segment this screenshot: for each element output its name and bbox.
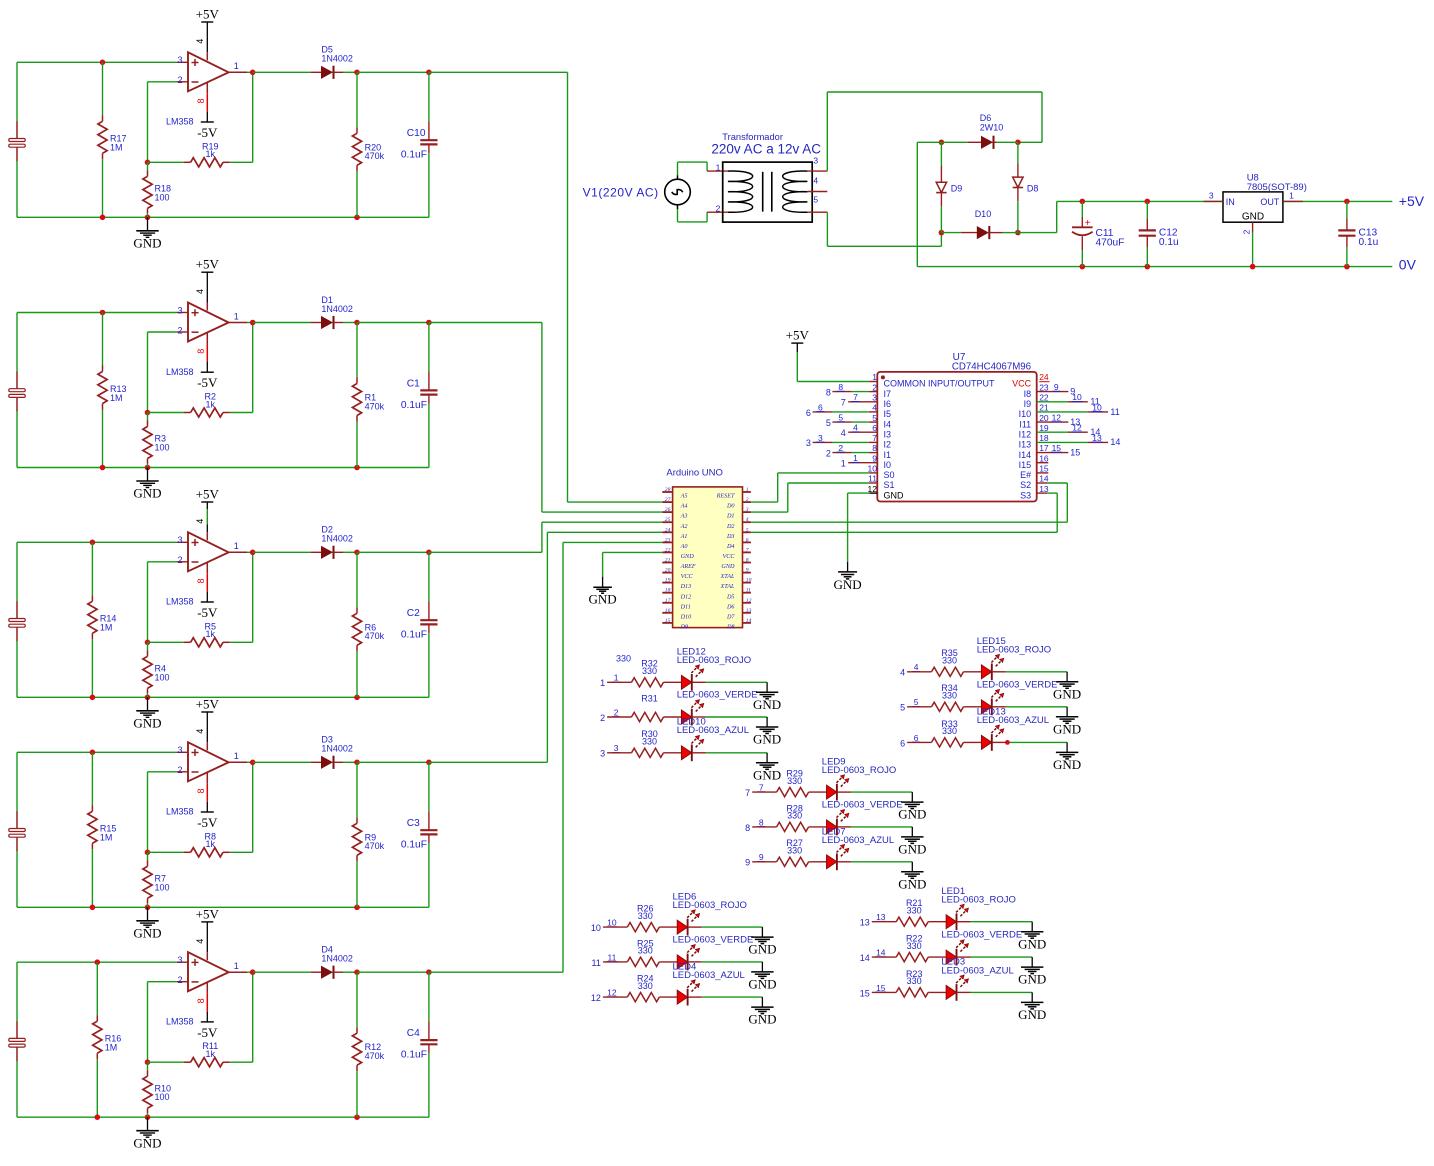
svg-text:100: 100 — [155, 882, 170, 892]
svg-text:470k: 470k — [365, 401, 385, 411]
svg-text:GND: GND — [721, 563, 735, 570]
svg-text:9: 9 — [872, 453, 877, 463]
svg-text:14: 14 — [746, 618, 752, 624]
svg-text:0V: 0V — [1399, 257, 1417, 273]
svg-text:3: 3 — [600, 749, 605, 759]
svg-text:XTAL: XTAL — [720, 583, 736, 590]
svg-text:8: 8 — [838, 382, 843, 392]
svg-text:330: 330 — [787, 776, 802, 786]
svg-text:I7: I7 — [884, 389, 892, 399]
svg-text:18: 18 — [665, 588, 671, 594]
svg-text:4: 4 — [195, 519, 205, 524]
svg-text:D8: D8 — [1027, 183, 1039, 193]
svg-text:10: 10 — [607, 918, 617, 928]
svg-text:GND: GND — [133, 235, 161, 250]
svg-text:1: 1 — [234, 961, 239, 971]
svg-text:330: 330 — [942, 726, 957, 736]
svg-text:4: 4 — [195, 729, 205, 734]
svg-text:C1: C1 — [407, 378, 420, 389]
svg-text:1k: 1k — [206, 149, 216, 159]
svg-text:14: 14 — [1039, 474, 1049, 484]
svg-text:0.1uF: 0.1uF — [401, 840, 427, 851]
svg-text:100: 100 — [155, 1092, 170, 1102]
svg-text:3: 3 — [1209, 191, 1214, 201]
svg-text:7: 7 — [841, 398, 846, 408]
svg-text:4: 4 — [746, 517, 749, 523]
svg-text:3: 3 — [177, 305, 182, 315]
svg-text:8: 8 — [759, 817, 764, 827]
svg-text:28: 28 — [665, 487, 671, 493]
svg-text:14: 14 — [860, 953, 870, 963]
svg-text:18: 18 — [1039, 433, 1049, 443]
svg-text:0.1uF: 0.1uF — [401, 630, 427, 641]
svg-text:LED-0603_ROJO: LED-0603_ROJO — [941, 895, 1015, 906]
svg-text:470k: 470k — [365, 631, 385, 641]
svg-text:-5V: -5V — [197, 125, 218, 140]
svg-text:XTAL: XTAL — [720, 573, 736, 580]
svg-text:5: 5 — [872, 413, 877, 423]
svg-text:LM358: LM358 — [166, 597, 194, 607]
svg-text:9: 9 — [745, 858, 750, 868]
svg-text:7: 7 — [872, 433, 877, 443]
svg-text:LED-0603_ROJO: LED-0603_ROJO — [673, 900, 747, 911]
svg-text:I14: I14 — [1019, 450, 1032, 460]
svg-text:COMMON INPUT/OUTPUT: COMMON INPUT/OUTPUT — [884, 379, 995, 389]
svg-text:3: 3 — [177, 745, 182, 755]
svg-text:I6: I6 — [884, 399, 892, 409]
svg-text:1N4002: 1N4002 — [321, 744, 353, 754]
svg-text:21: 21 — [665, 558, 671, 564]
svg-text:VCC: VCC — [722, 553, 735, 560]
svg-text:1: 1 — [853, 453, 858, 463]
svg-text:17: 17 — [665, 598, 671, 604]
svg-text:0.1uF: 0.1uF — [401, 150, 427, 161]
svg-text:1k: 1k — [206, 399, 216, 409]
svg-text:LED-0603_AZUL: LED-0603_AZUL — [673, 970, 745, 981]
svg-text:330: 330 — [942, 691, 957, 701]
svg-text:I1: I1 — [884, 450, 892, 460]
svg-text:I9: I9 — [1024, 399, 1032, 409]
svg-text:13: 13 — [746, 608, 752, 614]
svg-text:5: 5 — [900, 703, 905, 713]
svg-text:D7: D7 — [726, 613, 735, 620]
svg-text:4: 4 — [195, 39, 205, 44]
svg-text:3: 3 — [177, 535, 182, 545]
svg-text:8: 8 — [872, 443, 877, 453]
svg-text:3: 3 — [818, 433, 823, 443]
svg-text:A3: A3 — [680, 513, 688, 520]
svg-text:26: 26 — [665, 507, 671, 513]
svg-text:22: 22 — [1039, 393, 1049, 403]
svg-text:GND: GND — [133, 486, 161, 501]
svg-text:5: 5 — [826, 418, 831, 428]
svg-text:2: 2 — [872, 382, 877, 392]
svg-text:15: 15 — [665, 618, 671, 624]
svg-text:12: 12 — [868, 484, 878, 494]
svg-text:C10: C10 — [407, 128, 426, 139]
svg-text:+5V: +5V — [196, 7, 220, 22]
svg-text:D2: D2 — [726, 523, 735, 530]
svg-text:D10: D10 — [680, 613, 693, 620]
svg-text:-5V: -5V — [197, 815, 218, 830]
svg-text:6: 6 — [818, 402, 823, 412]
svg-text:1: 1 — [600, 678, 605, 688]
svg-text:20: 20 — [1039, 413, 1049, 423]
svg-text:4: 4 — [813, 176, 818, 186]
svg-text:RESET: RESET — [716, 493, 735, 500]
svg-text:1M: 1M — [105, 1043, 118, 1053]
svg-text:I13: I13 — [1019, 440, 1032, 450]
svg-text:27: 27 — [665, 497, 671, 503]
svg-text:1: 1 — [1289, 191, 1294, 201]
svg-text:15: 15 — [1039, 464, 1049, 474]
svg-text:LED-0603_VERDE: LED-0603_VERDE — [673, 935, 754, 946]
svg-text:I15: I15 — [1019, 460, 1032, 470]
svg-text:15: 15 — [860, 988, 870, 998]
svg-text:LM358: LM358 — [166, 1017, 194, 1027]
svg-text:GND: GND — [1018, 972, 1046, 987]
svg-text:A0: A0 — [680, 543, 689, 550]
svg-text:9: 9 — [759, 852, 764, 862]
svg-text:2: 2 — [614, 707, 619, 717]
svg-text:LM358: LM358 — [166, 117, 194, 127]
svg-text:0.1uF: 0.1uF — [401, 1050, 427, 1061]
svg-text:LED-0603_VERDE: LED-0603_VERDE — [941, 930, 1022, 941]
svg-text:11: 11 — [868, 474, 877, 484]
svg-text:2: 2 — [177, 325, 182, 335]
svg-text:LED-0603_ROJO: LED-0603_ROJO — [677, 655, 751, 666]
svg-text:LED-0603_AZUL: LED-0603_AZUL — [941, 965, 1013, 976]
svg-text:C2: C2 — [407, 608, 420, 619]
svg-text:1: 1 — [234, 61, 239, 71]
svg-text:19: 19 — [665, 578, 671, 584]
svg-text:470k: 470k — [365, 151, 385, 161]
svg-text:2: 2 — [177, 75, 182, 85]
svg-text:GND: GND — [1018, 936, 1046, 951]
svg-text:D12: D12 — [680, 593, 692, 600]
svg-text:4: 4 — [841, 428, 846, 438]
svg-text:1M: 1M — [110, 393, 123, 403]
svg-text:1N4002: 1N4002 — [321, 534, 353, 544]
svg-text:20: 20 — [665, 568, 671, 574]
svg-text:1k: 1k — [206, 839, 216, 849]
svg-text:GND: GND — [133, 1135, 161, 1150]
svg-text:11: 11 — [607, 952, 616, 962]
svg-text:LED-0603_VERDE: LED-0603_VERDE — [677, 690, 758, 701]
svg-text:12: 12 — [746, 598, 752, 604]
svg-text:1N4002: 1N4002 — [321, 54, 353, 64]
svg-text:4: 4 — [914, 662, 919, 672]
svg-text:GND: GND — [1053, 757, 1081, 772]
svg-text:330: 330 — [638, 911, 653, 921]
svg-text:D10: D10 — [975, 209, 992, 219]
svg-text:GND: GND — [1018, 1007, 1046, 1022]
svg-text:+5V: +5V — [786, 328, 810, 343]
svg-text:+5V: +5V — [196, 257, 220, 272]
svg-text:C3: C3 — [407, 818, 420, 829]
svg-text:A5: A5 — [680, 493, 688, 500]
svg-text:CD74HC4067M96: CD74HC4067M96 — [952, 362, 1031, 373]
svg-text:330: 330 — [787, 811, 802, 821]
svg-text:D1: D1 — [726, 513, 735, 520]
svg-text:D11: D11 — [680, 603, 691, 610]
svg-text:2: 2 — [177, 765, 182, 775]
svg-text:13: 13 — [1092, 433, 1102, 443]
svg-text:11: 11 — [746, 588, 751, 594]
svg-text:23: 23 — [665, 537, 671, 543]
svg-text:3: 3 — [806, 438, 811, 448]
svg-text:D4: D4 — [726, 543, 735, 550]
svg-text:7: 7 — [745, 788, 750, 798]
svg-text:5: 5 — [838, 413, 843, 423]
svg-text:6: 6 — [746, 537, 749, 543]
svg-text:4: 4 — [853, 423, 858, 433]
svg-text:S0: S0 — [884, 470, 895, 480]
svg-text:470k: 470k — [365, 841, 385, 851]
svg-text:15: 15 — [1052, 443, 1062, 453]
svg-text:D6: D6 — [726, 603, 735, 610]
svg-text:D9: D9 — [680, 624, 689, 631]
svg-text:LM358: LM358 — [166, 367, 194, 377]
svg-text:1k: 1k — [206, 629, 216, 639]
svg-text:-5V: -5V — [197, 375, 218, 390]
svg-text:+5V: +5V — [196, 487, 220, 502]
svg-text:GND: GND — [898, 876, 926, 891]
svg-text:I0: I0 — [884, 460, 892, 470]
svg-text:6: 6 — [914, 733, 919, 743]
svg-text:2: 2 — [177, 555, 182, 565]
svg-text:8: 8 — [746, 558, 749, 564]
svg-text:GND: GND — [589, 592, 617, 607]
svg-text:7: 7 — [853, 392, 858, 402]
svg-text:GND: GND — [748, 977, 776, 992]
svg-text:LED-0603_AZUL: LED-0603_AZUL — [677, 725, 749, 736]
svg-text:2: 2 — [838, 443, 843, 453]
svg-text:I5: I5 — [884, 409, 892, 419]
svg-text:17: 17 — [1039, 443, 1049, 453]
svg-text:330: 330 — [642, 737, 657, 747]
svg-text:13: 13 — [876, 912, 886, 922]
svg-text:I3: I3 — [884, 429, 892, 439]
svg-text:6: 6 — [872, 423, 877, 433]
svg-text:0.1uF: 0.1uF — [401, 400, 427, 411]
svg-text:1: 1 — [234, 751, 239, 761]
svg-text:22: 22 — [665, 547, 671, 553]
svg-text:I8: I8 — [1024, 389, 1032, 399]
svg-text:16: 16 — [665, 608, 671, 614]
svg-text:9: 9 — [746, 568, 749, 574]
svg-text:GND: GND — [1242, 212, 1264, 223]
svg-text:5: 5 — [813, 194, 818, 204]
svg-text:8: 8 — [196, 349, 206, 354]
svg-text:GND: GND — [1053, 721, 1081, 736]
svg-text:23: 23 — [1039, 382, 1049, 392]
svg-text:7805(SOT-89): 7805(SOT-89) — [1247, 182, 1307, 193]
svg-text:1: 1 — [234, 541, 239, 551]
svg-text:12: 12 — [591, 993, 601, 1003]
svg-text:100: 100 — [155, 443, 170, 453]
svg-text:VCC: VCC — [681, 573, 694, 580]
svg-text:330: 330 — [942, 656, 957, 666]
svg-text:1: 1 — [746, 487, 749, 493]
svg-text:100: 100 — [155, 672, 170, 682]
svg-text:8: 8 — [196, 98, 206, 103]
svg-text:3: 3 — [177, 55, 182, 65]
svg-text:11: 11 — [1110, 407, 1119, 417]
svg-text:330: 330 — [907, 941, 922, 951]
svg-text:330: 330 — [907, 906, 922, 916]
svg-text:10: 10 — [868, 464, 878, 474]
svg-text:D13: D13 — [680, 583, 692, 590]
svg-text:2: 2 — [826, 448, 831, 458]
svg-text:GND: GND — [834, 577, 862, 592]
svg-text:A1: A1 — [680, 533, 688, 540]
svg-text:LED-0603_ROJO: LED-0603_ROJO — [977, 645, 1051, 656]
svg-text:10: 10 — [1092, 402, 1102, 412]
svg-text:1M: 1M — [100, 833, 113, 843]
svg-text:2W10: 2W10 — [980, 123, 1004, 133]
svg-text:2: 2 — [177, 975, 182, 985]
svg-text:LED-0603_AZUL: LED-0603_AZUL — [977, 715, 1049, 726]
svg-text:24: 24 — [1039, 372, 1049, 382]
svg-text:1M: 1M — [110, 143, 123, 153]
svg-text:13: 13 — [1039, 484, 1049, 494]
svg-text:AREF: AREF — [680, 563, 696, 570]
svg-text:8: 8 — [745, 823, 750, 833]
svg-text:+5V: +5V — [196, 697, 220, 712]
svg-text:GND: GND — [748, 1012, 776, 1027]
svg-text:8: 8 — [196, 998, 206, 1003]
svg-text:1k: 1k — [206, 1049, 216, 1059]
svg-text:100: 100 — [155, 192, 170, 202]
svg-text:-5V: -5V — [197, 1025, 218, 1040]
svg-text:A4: A4 — [680, 503, 688, 510]
svg-text:R31: R31 — [641, 693, 658, 703]
svg-text:Arduino UNO: Arduino UNO — [666, 468, 723, 479]
svg-text:D3: D3 — [726, 533, 735, 540]
svg-text:LED-0603_VERDE: LED-0603_VERDE — [977, 679, 1058, 690]
svg-text:4: 4 — [872, 403, 877, 413]
svg-text:12: 12 — [607, 988, 617, 998]
svg-text:330: 330 — [638, 981, 653, 991]
svg-text:OUT: OUT — [1260, 197, 1280, 207]
svg-text:5: 5 — [746, 527, 749, 533]
svg-text:+5V: +5V — [196, 906, 220, 921]
svg-text:D6: D6 — [980, 113, 992, 123]
svg-text:+5V: +5V — [1399, 193, 1425, 209]
svg-text:I11: I11 — [1019, 419, 1031, 429]
svg-text:25: 25 — [665, 517, 671, 523]
svg-text:IN: IN — [1226, 197, 1235, 207]
svg-text:VCC: VCC — [1012, 379, 1032, 389]
svg-text:220v AC a 12v AC: 220v AC a 12v AC — [711, 141, 821, 156]
svg-text:2: 2 — [716, 203, 721, 213]
svg-text:GND: GND — [681, 553, 695, 560]
svg-text:13: 13 — [860, 918, 870, 928]
svg-text:24: 24 — [665, 527, 671, 533]
svg-text:4: 4 — [195, 939, 205, 944]
svg-text:LED-0603_VERDE: LED-0603_VERDE — [822, 800, 903, 811]
svg-text:C4: C4 — [407, 1028, 420, 1039]
svg-text:3: 3 — [745, 507, 749, 513]
svg-text:5: 5 — [914, 697, 919, 707]
svg-text:6: 6 — [806, 408, 811, 418]
svg-text:7: 7 — [759, 783, 764, 793]
svg-text:3: 3 — [614, 743, 619, 753]
svg-text:330: 330 — [638, 946, 653, 956]
svg-text:19: 19 — [1039, 423, 1049, 433]
svg-text:I4: I4 — [884, 419, 892, 429]
svg-text:2: 2 — [600, 713, 605, 723]
svg-text:1: 1 — [716, 162, 721, 172]
svg-text:S3: S3 — [1020, 490, 1031, 500]
svg-text:2: 2 — [746, 497, 749, 503]
svg-text:1M: 1M — [100, 623, 113, 633]
svg-text:S1: S1 — [884, 480, 895, 490]
svg-text:8: 8 — [826, 387, 831, 397]
svg-text:4: 4 — [900, 668, 905, 678]
svg-text:9: 9 — [1054, 382, 1059, 392]
svg-text:330: 330 — [616, 654, 631, 664]
svg-text:15: 15 — [1070, 447, 1080, 457]
svg-text:GND: GND — [898, 842, 926, 857]
svg-text:+: + — [1085, 218, 1091, 229]
svg-text:8: 8 — [196, 578, 206, 583]
svg-text:21: 21 — [1039, 403, 1049, 413]
svg-text:3: 3 — [872, 393, 877, 403]
svg-text:GND: GND — [133, 715, 161, 730]
svg-text:15: 15 — [876, 983, 886, 993]
svg-text:12: 12 — [1052, 413, 1062, 423]
svg-text:Transformador: Transformador — [722, 132, 783, 142]
svg-text:GND: GND — [753, 767, 781, 782]
svg-text:D8: D8 — [726, 624, 735, 631]
svg-text:LED-0603_AZUL: LED-0603_AZUL — [822, 835, 894, 846]
svg-text:1N4002: 1N4002 — [321, 954, 353, 964]
svg-text:14: 14 — [876, 948, 886, 958]
svg-text:6: 6 — [900, 738, 905, 748]
svg-text:I10: I10 — [1019, 409, 1032, 419]
svg-text:D0: D0 — [726, 503, 735, 510]
svg-text:0.1u: 0.1u — [1159, 237, 1179, 248]
svg-text:11: 11 — [592, 958, 601, 968]
svg-text:D5: D5 — [726, 593, 735, 600]
svg-text:10: 10 — [746, 578, 752, 584]
svg-text:S2: S2 — [1020, 480, 1031, 490]
svg-text:E#: E# — [1020, 470, 1031, 480]
svg-text:470uF: 470uF — [1096, 237, 1125, 248]
svg-text:10: 10 — [591, 923, 601, 933]
svg-text:-5V: -5V — [197, 605, 218, 620]
svg-text:2: 2 — [1242, 229, 1252, 234]
svg-text:8: 8 — [196, 788, 206, 793]
svg-text:3: 3 — [177, 955, 182, 965]
svg-text:0.1u: 0.1u — [1359, 237, 1379, 248]
svg-text:16: 16 — [1039, 453, 1049, 463]
svg-text:1: 1 — [841, 459, 846, 469]
svg-text:I2: I2 — [884, 440, 892, 450]
svg-text:I12: I12 — [1019, 429, 1032, 439]
svg-text:1: 1 — [234, 311, 239, 321]
svg-text:LED-0603_ROJO: LED-0603_ROJO — [822, 765, 896, 776]
svg-text:GND: GND — [884, 490, 905, 500]
svg-text:14: 14 — [1110, 437, 1120, 447]
svg-text:330: 330 — [787, 846, 802, 856]
svg-text:1: 1 — [614, 673, 619, 683]
svg-text:4: 4 — [195, 289, 205, 294]
svg-text:D9: D9 — [951, 183, 963, 193]
svg-text:330: 330 — [642, 666, 657, 676]
